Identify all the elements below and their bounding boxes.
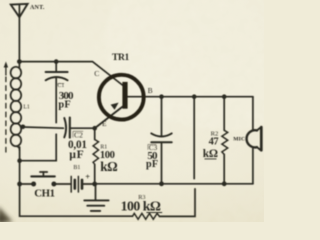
- svg-text:C: C: [94, 69, 99, 78]
- svg-text:MIC: MIC: [233, 136, 245, 142]
- svg-text:ANT.: ANT.: [30, 5, 45, 11]
- svg-text:pF: pF: [58, 100, 71, 111]
- svg-text:TR1: TR1: [112, 52, 130, 63]
- svg-text:E: E: [102, 119, 107, 128]
- svg-text:100 kΩ: 100 kΩ: [121, 199, 161, 214]
- svg-text:CH1: CH1: [34, 187, 54, 199]
- svg-text:kΩ: kΩ: [203, 148, 218, 160]
- svg-text:B1: B1: [73, 165, 80, 171]
- svg-text:+: +: [85, 173, 90, 182]
- svg-text:B: B: [148, 86, 153, 95]
- svg-text:kΩ: kΩ: [100, 159, 117, 174]
- svg-text:pF: pF: [146, 159, 158, 170]
- svg-text:µF: µF: [69, 148, 84, 161]
- svg-text:47: 47: [209, 137, 219, 148]
- svg-text:L1: L1: [23, 105, 30, 111]
